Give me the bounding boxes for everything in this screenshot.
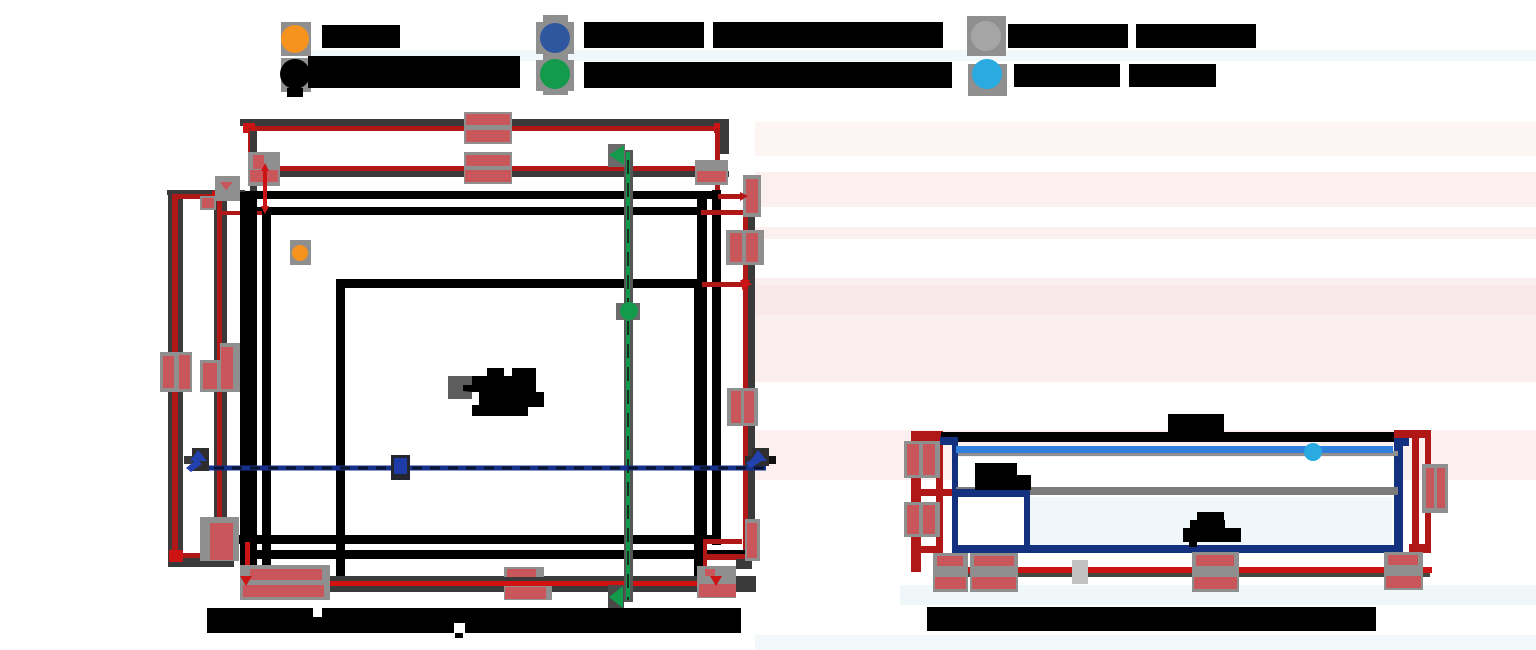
- faint background bands: [295, 50, 1536, 650]
- red dim stub right: [715, 128, 720, 198]
- blue right section arrow: [745, 448, 776, 468]
- left caption: [207, 608, 741, 638]
- L1 bottom tick dark: [168, 558, 234, 567]
- center label blob: [448, 368, 544, 416]
- label right mid 3: [727, 388, 758, 426]
- red right bottom corner: [1409, 544, 1431, 553]
- red left top tick: [911, 431, 943, 441]
- red right bracket vertical C: [1412, 431, 1419, 572]
- label bottom 2: [970, 553, 1018, 592]
- black vertical V_c: [262, 208, 271, 578]
- legend marker LANDING (green): [536, 59, 574, 91]
- label bottom right: [697, 566, 736, 598]
- blue left section arrow: [184, 448, 209, 472]
- black bottom line B3: [235, 535, 720, 544]
- green ref line gray backing: [624, 150, 633, 602]
- legend label 6: [1014, 64, 1216, 87]
- cyan dot marker: [1304, 443, 1322, 461]
- red right top tick: [1394, 430, 1431, 438]
- label bottom center pair: [504, 567, 552, 600]
- legend marker CONCRETE (gray): [967, 16, 1006, 56]
- label right side: [1422, 464, 1448, 513]
- label bottom 3: [1192, 552, 1239, 592]
- red right bracket vertical D: [1425, 431, 1431, 553]
- label top-left A: [248, 152, 280, 186]
- label bottom right: [1384, 552, 1423, 590]
- label far-left upper: [904, 441, 940, 478]
- legend label 3: [584, 22, 943, 48]
- gray shadow under light blue line: [958, 451, 1398, 456]
- left dim pair L2 dark: [214, 200, 227, 560]
- red overall width dim line top: [248, 126, 720, 131]
- navy rect bottom edge: [952, 545, 1400, 553]
- orange dot marker: [290, 240, 311, 265]
- red bottom-right corner: [703, 539, 752, 586]
- red short dim vertical with arrows: [261, 163, 269, 214]
- navy top-left stub: [940, 437, 958, 445]
- red tick 2 top-right: [701, 210, 746, 215]
- legend label 4: [584, 62, 952, 88]
- inner rect: [341, 284, 699, 583]
- blue section line: [184, 448, 776, 480]
- L1 top tick red: [172, 194, 246, 199]
- gray bottom band: [250, 576, 756, 592]
- gray outer top edge: [240, 119, 729, 126]
- red junction square: [212, 191, 221, 200]
- navy small rect: [952, 489, 1030, 553]
- black top line: [941, 432, 1394, 442]
- left dim pair L1 red: [172, 194, 178, 561]
- left dim pair L1 dark: [168, 192, 183, 567]
- black frame line B2: [240, 207, 707, 215]
- black blob label top: [1168, 414, 1224, 432]
- red tick top-right: [718, 194, 746, 199]
- green line dashes: [627, 160, 629, 600]
- left dim pair L2 red: [217, 198, 222, 559]
- light blue finished floor line: [956, 446, 1393, 453]
- gray line 2: [249, 171, 729, 177]
- label far-left lower: [904, 502, 940, 537]
- black blob label left: [975, 463, 1031, 490]
- L1 top tick dark: [167, 190, 245, 195]
- long red bottom line: [938, 567, 1432, 573]
- blue square marker: [391, 455, 410, 480]
- navy rect left edge: [952, 438, 958, 566]
- gray mid line: [956, 487, 1398, 495]
- red corner marker top-left: [243, 123, 255, 133]
- red left mid tick: [911, 489, 955, 496]
- green top arrow: [608, 144, 625, 167]
- L1 bottom tick red: [174, 553, 234, 559]
- gray top-right corner vertical: [720, 122, 729, 154]
- red junction bottom-left: [936, 563, 962, 575]
- label bottom-left corner: [200, 517, 239, 561]
- label top-left C: [200, 196, 216, 210]
- green bottom arrow: [608, 585, 624, 616]
- red arrows bottom dim line: [240, 576, 252, 586]
- label top-left B: [215, 176, 240, 201]
- red arrow bottom right: [1403, 566, 1417, 578]
- black vertical right V_e: [712, 190, 721, 545]
- legend marker MAT (orange): [281, 22, 311, 56]
- red left bracket vertical A: [911, 431, 921, 572]
- dim label top center 2: [464, 152, 512, 184]
- label right mid 1 (y~176-217): [695, 160, 761, 217]
- legend label 5: [1008, 24, 1256, 48]
- red bottom dim line: [250, 581, 722, 586]
- green ref line: [626, 152, 630, 600]
- black vertical V_b: [240, 192, 257, 578]
- black vertical right V_d: [697, 199, 707, 580]
- red corner marker bottom-left: [169, 550, 183, 562]
- red left bracket vertical B: [936, 433, 943, 568]
- red bottom-left dim stub: [245, 542, 250, 586]
- red arrow on inner line: [742, 279, 752, 290]
- legend marker SAFETY PADDING (black): [280, 58, 311, 97]
- navy top-right stub: [1394, 437, 1409, 446]
- red dim line 2: [248, 166, 722, 171]
- green mid marker: [616, 302, 640, 320]
- black bottom line B4: [240, 550, 746, 559]
- red dim line inner top right: [702, 282, 746, 287]
- right red dim vertical: [743, 198, 748, 560]
- label left mid 2: [200, 343, 240, 392]
- navy rect right edge: [1394, 438, 1403, 553]
- gray dot marker bottom: [1072, 560, 1088, 584]
- right dark companion: [748, 216, 755, 560]
- label bottom 1: [933, 553, 968, 592]
- label bottom left pair: [240, 565, 330, 600]
- legend label 2: [308, 56, 520, 88]
- legend marker FOUND (cyan): [968, 59, 1007, 96]
- L2 tick2 red: [217, 211, 266, 215]
- red left bottom tick: [911, 546, 943, 553]
- legend marker FINISHED (blue): [536, 15, 574, 95]
- right caption: [927, 607, 1376, 631]
- red dim stub left: [248, 128, 252, 168]
- label right mid 2: [726, 230, 764, 265]
- red arrow right dim: [740, 192, 748, 201]
- dim label top center 1: [464, 112, 512, 144]
- gray top-left corner vertical: [250, 131, 257, 192]
- legend label 1: [322, 25, 400, 48]
- black frame line B1: [240, 191, 721, 199]
- red corner marker top-right: [714, 123, 724, 133]
- black blob label bottom center: [1183, 512, 1241, 547]
- label left mid 1: [160, 352, 192, 392]
- label right bottom vertical: [745, 519, 760, 561]
- red dim arrow mid-right: [740, 280, 750, 290]
